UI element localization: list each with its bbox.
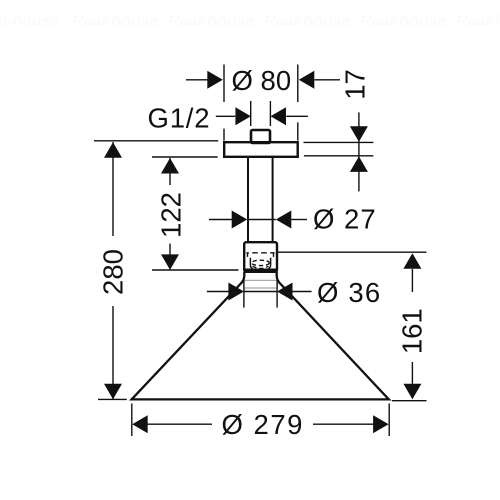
svg-text:280: 280: [98, 249, 129, 295]
svg-text:Ø 279: Ø 279: [222, 409, 304, 440]
svg-text:Real-house: Real-house: [168, 13, 254, 30]
svg-text:Real-house: Real-house: [264, 13, 350, 30]
svg-text:Real-house: Real-house: [0, 13, 59, 30]
svg-text:Real-house: Real-house: [456, 13, 500, 30]
svg-text:Real-house: Real-house: [72, 13, 158, 30]
svg-text:G1/2: G1/2: [148, 103, 211, 134]
svg-text:Ø 27: Ø 27: [313, 204, 377, 235]
svg-text:161: 161: [397, 308, 428, 354]
svg-text:Ø 36: Ø 36: [317, 277, 381, 308]
svg-text:Real-house: Real-house: [360, 13, 446, 30]
svg-text:Ø 80: Ø 80: [232, 65, 292, 96]
svg-text:122: 122: [156, 192, 187, 238]
svg-text:17: 17: [340, 69, 371, 100]
